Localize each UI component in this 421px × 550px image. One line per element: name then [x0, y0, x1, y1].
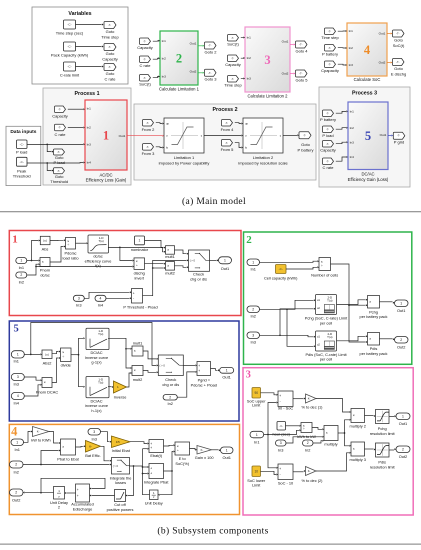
svg-text:2: 2 [58, 505, 60, 510]
svg-text:-T-: -T- [396, 32, 399, 36]
block Abs [40, 236, 50, 244]
svg-text:-C-: -C- [67, 23, 71, 27]
svg-text:mult1: mult1 [165, 254, 175, 259]
goto tag C rate [104, 64, 116, 71]
block Cut off positive powers [115, 490, 126, 502]
svg-text:multiply 3: multiply 3 [349, 457, 365, 462]
wire Pchg lookup to multiplier [337, 300, 366, 305]
wire from P battery (soc) [338, 47, 345, 49]
svg-text:C rate: C rate [105, 77, 117, 82]
wire from C rate [153, 58, 159, 59]
svg-text:+: + [133, 291, 135, 295]
svg-text:-T-: -T- [326, 111, 329, 115]
wire multiply 2 to Pchg limit [365, 415, 374, 417]
wire branch to Goto Threshold [47, 163, 51, 171]
svg-text:C rate: C rate [55, 132, 67, 137]
wire In1 to kW to KWh [24, 432, 31, 443]
wire In2 to Pbat and switch [23, 464, 110, 466]
svg-text:invert: invert [134, 275, 144, 280]
wire In1 rail to sums and kWh [264, 430, 299, 434]
svg-text:5: 5 [365, 129, 371, 143]
svg-text:Pnom DCAC: Pnom DCAC [36, 389, 58, 394]
svg-text:Threshold: Threshold [50, 179, 68, 184]
svg-text:( > 0: ( > 0 [160, 363, 166, 367]
svg-text:1: 1 [12, 233, 18, 245]
svg-text:In1: In1 [250, 267, 255, 272]
svg-text:In2: In2 [305, 448, 310, 453]
inport In3 (box3) [276, 440, 287, 446]
svg-text:0.5: 0.5 [116, 440, 120, 444]
svg-text:×: × [326, 431, 328, 435]
inport In3 (box4) [88, 429, 101, 436]
svg-text:×: × [134, 349, 136, 353]
svg-text:1: 1 [139, 239, 141, 243]
svg-text:AC/DC: AC/DC [99, 172, 112, 177]
wire from Capacity (p3) [336, 142, 346, 144]
wire C rate to In2 [68, 127, 83, 129]
svg-text:In4: In4 [350, 155, 355, 159]
subsystem block Calculate SoC [347, 23, 387, 76]
svg-text:Limitation 1: Limitation 1 [174, 155, 195, 160]
svg-text:1: 1 [103, 128, 109, 142]
inport In1 (box1) [16, 258, 27, 264]
svg-text:-C-: -C- [67, 65, 71, 69]
svg-text:Out1: Out1 [379, 32, 386, 36]
constant Time step (sec) [64, 20, 76, 29]
wire sum to % to dec (1) [293, 398, 304, 400]
svg-text:multiply 2: multiply 2 [349, 424, 365, 429]
block Pchg resolution limit [376, 410, 390, 424]
svg-text:E dischg: E dischg [391, 72, 406, 77]
svg-text:Goto 5: Goto 5 [295, 77, 308, 82]
svg-text:-T-: -T- [146, 121, 149, 125]
svg-text:% to dec (2): % to dec (2) [302, 478, 324, 483]
wire lookup h to Inverse [108, 386, 112, 388]
svg-text:Goto 3: Goto 3 [204, 77, 217, 82]
svg-text:In2: In2 [167, 401, 172, 406]
svg-text:-T-: -T- [108, 45, 111, 49]
svg-text:mult2: mult2 [165, 270, 175, 275]
group: subsystem detail box 2 (green) [244, 232, 412, 364]
wire In2 to Pnom and dischg invert [27, 264, 38, 275]
svg-text:|u|: |u| [45, 352, 48, 356]
from tag Capacity [140, 38, 151, 45]
wire Ebat to E to SoC [164, 444, 174, 447]
svg-text:Initial Ebat: Initial Ebat [112, 448, 131, 453]
svg-text:3: 3 [280, 441, 282, 445]
svg-text:Time step (sec): Time step (sec) [56, 31, 84, 36]
block Pdis per battery pack [368, 333, 380, 346]
svg-text:-T-: -T- [299, 43, 302, 47]
wire multiply 3 to Pdis limit [365, 448, 374, 450]
svg-text:In1: In1 [19, 265, 24, 270]
svg-text:Calculate Limitation 1: Calculate Limitation 1 [159, 87, 200, 92]
from tag P battery (p3) [323, 110, 334, 117]
from tag From 2 [143, 120, 154, 127]
svg-text:In1: In1 [247, 36, 252, 40]
svg-text:chg or dis: chg or dis [190, 276, 207, 281]
lookup Pchg (SoC, C-rate) Limit per cell [316, 295, 337, 315]
svg-text:In3: In3 [87, 142, 92, 146]
svg-text:+: + [198, 369, 200, 373]
svg-text:T(u): T(u) [327, 299, 332, 303]
svg-text:-T-: -T- [146, 145, 149, 149]
bottom rule [0, 544, 421, 545]
outport Out2 (box3) [396, 446, 410, 453]
constant SoC upper Limit 90 [252, 388, 261, 399]
wire In1 to Number of cells [260, 261, 318, 262]
block dischg invert [134, 258, 145, 270]
svg-text:Capacity: Capacity [52, 114, 68, 119]
goto tag Capacity [104, 44, 116, 51]
svg-text:Out2: Out2 [282, 72, 289, 76]
from tag SoC(t) [140, 75, 151, 82]
svg-text:% to dec (1): % to dec (1) [302, 404, 324, 409]
svg-text:Time step: Time step [321, 35, 339, 40]
svg-text:-: - [280, 399, 281, 403]
svg-text:4: 4 [11, 425, 18, 439]
svg-text:3: 3 [264, 53, 270, 67]
svg-text:In2: In2 [350, 126, 355, 130]
svg-text:Peak: Peak [17, 168, 26, 173]
svg-text:Time step: Time step [101, 35, 119, 40]
block multiply 2 [351, 409, 365, 423]
from tag Time step (soc) [325, 28, 336, 35]
gain Initial Ebat [112, 436, 131, 448]
svg-text:×: × [44, 381, 46, 385]
svg-text:+: + [150, 467, 152, 471]
svg-text:In1: In1 [162, 39, 167, 43]
goto tag Time step [104, 22, 116, 29]
wire Pnom to Pdc/ac [50, 247, 64, 263]
svg-text:Time step: Time step [224, 83, 242, 88]
svg-text:C rate: C rate [323, 165, 335, 170]
svg-text:3: 3 [246, 370, 251, 381]
outport Out1 (box1) [219, 257, 232, 264]
block kWh to kW [301, 423, 312, 433]
inport In1 (box2) [247, 259, 260, 266]
svg-text:In2: In2 [19, 280, 24, 285]
svg-text:K-: K- [89, 444, 92, 448]
svg-text:-T-: -T- [328, 62, 331, 66]
svg-text:positive powers: positive powers [107, 507, 134, 512]
svg-text:K-: K- [308, 469, 311, 473]
block sum 90 - SoC [278, 391, 293, 407]
svg-text:Gain x 100: Gain x 100 [195, 455, 215, 460]
wire Peak Threshold to In4 [27, 162, 83, 165]
wire Abs to Pdc/ac [50, 239, 64, 241]
svg-text:resolution limit: resolution limit [370, 464, 396, 469]
inport In4 (box1) [95, 295, 106, 301]
svg-text:Out1: Out1 [221, 266, 229, 271]
svg-text:( > 0: ( > 0 [190, 259, 196, 263]
block Unit Delay [150, 490, 159, 500]
from tag From 3 [143, 144, 154, 151]
goto tag P battery [299, 132, 311, 139]
svg-text:hour (sec): hour (sec) [272, 432, 290, 437]
svg-text:Edischarge: Edischarge [73, 506, 92, 511]
svg-text:K-: K- [308, 397, 311, 401]
subsystem block AC/DC Efficiency Loss (Gain) [85, 100, 127, 170]
svg-text:P Threshold - Pload: P Threshold - Pload [123, 304, 157, 309]
group: subsystem detail box 1 (red) [9, 231, 241, 316]
svg-text:-T-: -T- [299, 72, 302, 76]
block sum Integrate Pbat [149, 464, 164, 479]
wire from C rate (p3) [336, 157, 346, 161]
svg-text:-C-: -C- [279, 424, 283, 428]
wire In2 to Pchg u1 and Pdis u2 [260, 300, 314, 309]
from tag Capacity (p1) [55, 106, 66, 113]
wire sum to Out1 (box5) [211, 369, 218, 371]
block divide [61, 348, 72, 362]
svg-text:4: 4 [17, 394, 19, 398]
svg-text:P battery: P battery [298, 147, 314, 152]
wire Pchg limit to Out1 (box3) [389, 416, 394, 418]
svg-text:In2: In2 [349, 46, 354, 50]
svg-text:Limit: Limit [252, 403, 261, 408]
svg-text:-T-: -T- [326, 127, 329, 131]
wire Cut off to Accumulated [92, 495, 115, 497]
svg-text:Efficiency Gain (Loss): Efficiency Gain (Loss) [348, 177, 389, 182]
svg-text:÷: ÷ [303, 427, 305, 431]
svg-text:2: 2 [176, 51, 182, 65]
svg-text:4: 4 [100, 297, 102, 301]
svg-text:1: 1 [400, 301, 402, 305]
goto tag Threshold [54, 168, 65, 174]
svg-text:Ebat(t): Ebat(t) [150, 453, 162, 458]
svg-text:-T-: -T- [328, 29, 331, 33]
wire From 2 to up [156, 122, 162, 125]
goto tag Goto 4 [296, 41, 308, 48]
svg-text:-C-: -C- [20, 142, 24, 146]
outport Out2 (box2) [395, 337, 409, 344]
svg-text:Goto: Goto [106, 71, 115, 76]
svg-text:In1: In1 [13, 359, 18, 364]
wire Inverse to mult2 [127, 373, 131, 387]
wire In4 to sum [106, 297, 130, 299]
svg-text:T(u): T(u) [98, 380, 103, 384]
wire Pdis multiplier to Out2 [380, 338, 393, 340]
wire Number of cells rail [331, 264, 366, 342]
svg-text:Calculate Limitation 2: Calculate Limitation 2 [247, 94, 288, 99]
svg-text:(a) Main model: (a) Main model [182, 196, 246, 207]
svg-text:-T-: -T- [397, 134, 400, 138]
svg-text:-C-: -C- [20, 160, 24, 164]
svg-text:Capacity: Capacity [320, 148, 336, 153]
wire Out2 to Goto 3 [198, 72, 203, 74]
svg-text:h-1(x): h-1(x) [91, 408, 102, 413]
group: subsystem detail box 4 (orange) [9, 424, 239, 514]
constant Pack Capacity (kWh) [64, 42, 76, 51]
constant nominator [135, 236, 145, 245]
from tag From 5 [222, 140, 233, 147]
svg-text:Bat Effic.: Bat Effic. [85, 453, 101, 458]
wire from SoC(t) (lim2) [241, 37, 243, 39]
svg-text:u2: u2 [317, 306, 320, 310]
block sum Pgrid [197, 362, 211, 376]
gain kW to KWh [33, 427, 50, 437]
svg-text:In1: In1 [87, 107, 92, 111]
wire Abs2 to divide [52, 352, 59, 354]
inport In2 (box5) [163, 395, 177, 401]
block multiply [324, 426, 338, 441]
svg-text:In2: In2 [87, 126, 92, 130]
svg-text:resolution limit: resolution limit [370, 431, 396, 436]
svg-text:In3: In3 [350, 140, 355, 144]
wire From 3 to lo [156, 146, 162, 149]
svg-text:SoC - 10: SoC - 10 [278, 481, 294, 486]
separator rule [0, 211, 421, 212]
svg-text:90 - SoC: 90 - SoC [278, 406, 294, 411]
svg-text:P battery: P battery [320, 117, 336, 122]
svg-text:|u|: |u| [44, 239, 47, 243]
inport In3 (box2) [247, 332, 260, 339]
block Limitation 1 [164, 118, 204, 153]
svg-text:In3: In3 [13, 382, 18, 387]
svg-text:Goto 2: Goto 2 [204, 49, 217, 54]
inport In1 (box4) [11, 439, 24, 446]
svg-text:-T-: -T- [225, 141, 228, 145]
wire Out1 to Goto P grid [388, 135, 391, 137]
svg-text:In2: In2 [247, 56, 252, 60]
svg-text:1: 1 [20, 259, 22, 263]
svg-text:T(u): T(u) [327, 335, 332, 339]
svg-text:2: 2 [246, 234, 252, 246]
svg-text:mult1: mult1 [133, 340, 143, 345]
wire divide to lookups [71, 354, 79, 356]
block Limitation 2 [243, 118, 283, 153]
svg-text:2: 2 [20, 273, 22, 277]
svg-text:dc/ac: dc/ac [40, 272, 49, 277]
wire 10 to sum [261, 471, 277, 474]
svg-text:-: - [280, 472, 281, 476]
wire Bat Effic to switch [101, 446, 110, 461]
svg-text:K-: K- [37, 430, 40, 434]
svg-text:-T-: -T- [58, 107, 61, 111]
svg-text:Out1: Out1 [399, 421, 407, 426]
svg-text:÷: ÷ [321, 264, 323, 268]
svg-text:Cpapacity: Cpapacity [321, 68, 339, 73]
block mult1 (box5) [132, 346, 143, 356]
svg-text:Inverse: Inverse [114, 394, 127, 399]
svg-text:÷: ÷ [67, 243, 69, 247]
wire P load to In3 [27, 143, 83, 145]
svg-text:In3: In3 [162, 75, 167, 79]
svg-text:Variables: Variables [68, 11, 91, 17]
svg-text:kW to KWh: kW to KWh [31, 437, 50, 442]
svg-text:3: 3 [17, 375, 19, 379]
svg-text:Out2: Out2 [379, 61, 386, 65]
svg-text:-T-: -T- [57, 150, 60, 154]
svg-text:K-: K- [201, 448, 204, 452]
svg-text:Capacity: Capacity [102, 57, 118, 62]
wire kW to KWh to Pbat [49, 432, 59, 444]
wire feedback loop to Accumulated [41, 478, 105, 492]
goto tag Goto 2 [205, 42, 217, 49]
svg-text:×: × [353, 414, 355, 418]
svg-text:In2: In2 [250, 314, 255, 319]
svg-text:1: 1 [16, 440, 18, 444]
wire In3 to Initial Ebat [101, 432, 110, 442]
group: Process 2 box [134, 104, 316, 180]
svg-text:T(u): T(u) [98, 239, 103, 243]
block sum SoC - 10 [278, 464, 293, 480]
svg-text:From 3: From 3 [142, 151, 155, 156]
inport In3 (box1) [73, 295, 84, 301]
svg-text:C rate: C rate [140, 63, 152, 68]
svg-text:Efficiency Loss (Gain): Efficiency Loss (Gain) [86, 178, 127, 183]
block Pdc/ac load ratio [66, 238, 76, 250]
svg-text:Process 3: Process 3 [352, 91, 377, 97]
svg-text:2: 2 [15, 463, 17, 467]
svg-text:+: + [77, 494, 79, 498]
svg-text:-T-: -T- [143, 57, 146, 61]
svg-text:per cell: per cell [320, 357, 333, 362]
wire In1 to Abs2 and top rail [24, 353, 40, 355]
from tag P load (p3) [323, 126, 334, 133]
svg-text:4: 4 [364, 43, 371, 57]
wire Limitation 1 to Limitation 2 [204, 135, 241, 137]
wire Cell capacity to Number of cells [286, 267, 317, 269]
inport In2 (box4) [10, 461, 24, 468]
wire from P battery (p3) [336, 111, 346, 113]
svg-text:×: × [369, 337, 371, 341]
wire lookup to mult1 and dischg [108, 247, 164, 251]
block Pchg per battery pack [368, 296, 380, 309]
svg-text:per battery pack: per battery pack [360, 314, 388, 319]
svg-text:P load: P load [16, 149, 27, 154]
constant C-rate limit [64, 62, 76, 71]
svg-text:P battery: P battery [322, 52, 338, 57]
group: Variables subsystem box [32, 7, 128, 84]
svg-text:Calculate SoC: Calculate SoC [354, 77, 381, 82]
svg-text:u1: u1 [317, 334, 320, 338]
svg-text:Goto: Goto [106, 51, 115, 56]
svg-text:×: × [62, 351, 64, 355]
inport In1 (box5) [11, 351, 24, 358]
svg-text:P load: P load [322, 133, 333, 138]
lookup DC/AC inverse curve h-1(x) [86, 377, 109, 398]
wire Pdis limit to Out2 (box3) [389, 449, 394, 451]
wire E to SoC to Gain [190, 449, 196, 450]
svg-text:P load: P load [54, 160, 65, 165]
wire In1 to Abs and Pnom [27, 260, 38, 262]
wire In3 to sum [84, 292, 129, 298]
wire Out2 to Goto 5 [290, 73, 294, 75]
svg-text:Process 2: Process 2 [212, 107, 237, 113]
svg-text:In3: In3 [91, 436, 96, 441]
svg-text:f(x): f(x) [95, 263, 101, 268]
svg-text:In1: In1 [14, 447, 19, 452]
svg-text:Out1: Out1 [397, 308, 405, 313]
wire kWh to multiply [312, 428, 322, 430]
group: Process 3 box [319, 87, 410, 187]
svg-text:Capacity: Capacity [137, 45, 153, 50]
svg-text:×: × [167, 248, 169, 252]
svg-text:SoC(t): SoC(t) [393, 43, 405, 48]
wire mult2 to switch [175, 266, 187, 268]
wire branch to Goto P load [47, 144, 51, 151]
gain Gain x 100 [197, 446, 212, 455]
svg-text:imposed by Power capability: imposed by Power capability [159, 160, 210, 165]
svg-text:×: × [134, 369, 136, 373]
svg-text:From 5: From 5 [221, 147, 234, 152]
svg-text:imposed by resolution scale: imposed by resolution scale [238, 160, 288, 165]
constant Peak Threshold [17, 157, 28, 166]
svg-text:In4: In4 [87, 161, 92, 165]
inport In4 (box5) [11, 393, 24, 400]
svg-text:3: 3 [93, 430, 95, 434]
